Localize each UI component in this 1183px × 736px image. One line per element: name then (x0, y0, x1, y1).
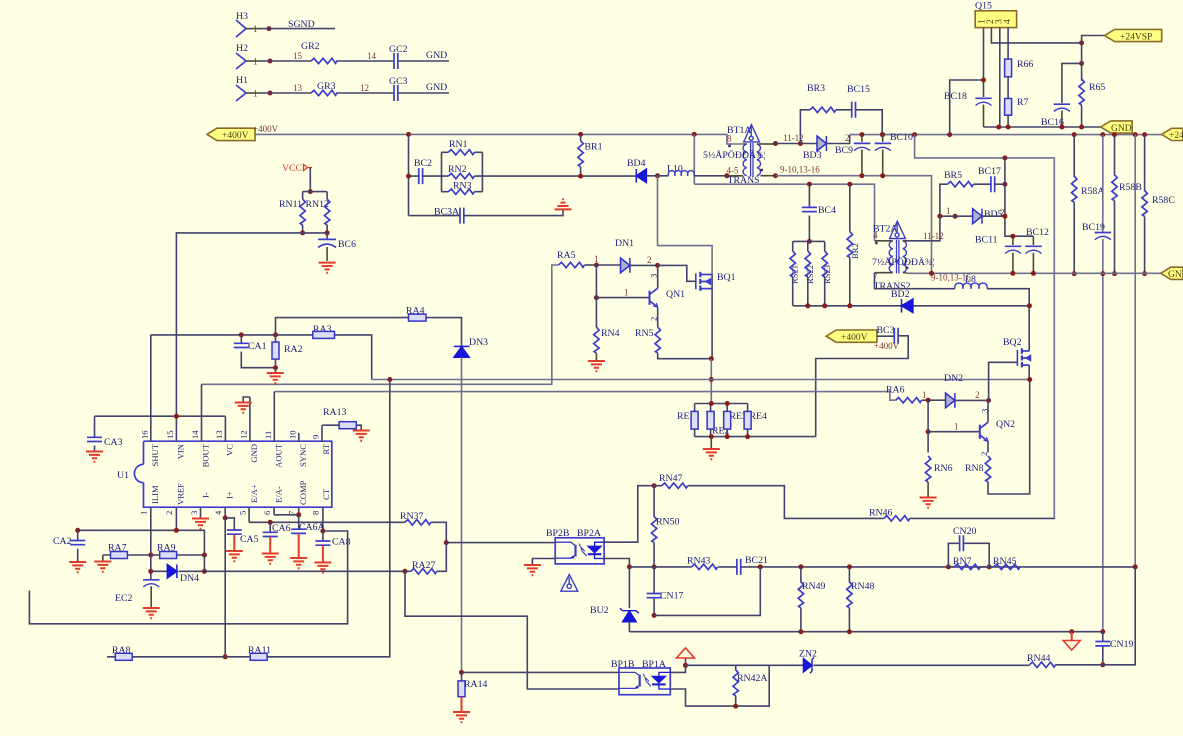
ground (143, 608, 160, 618)
node junction (1072, 271, 1077, 276)
wire (326, 192, 328, 199)
svg-text:CT: CT (321, 488, 331, 500)
svg-text:RN5: RN5 (635, 328, 654, 339)
node junction (709, 356, 714, 361)
node junction (406, 174, 411, 179)
wire E/A+ to RN37 (249, 521, 405, 523)
wire (442, 191, 483, 193)
wire (302, 192, 304, 199)
wire (1028, 306, 1030, 348)
node DN4 out (202, 569, 207, 574)
wire stub (861, 135, 863, 175)
wire (431, 522, 447, 542)
node BC19 column top (1100, 132, 1105, 137)
wire (987, 400, 989, 452)
node RN11 bottom (300, 230, 305, 235)
node junction (880, 173, 885, 178)
node junction (308, 189, 313, 194)
node BD5 line left (953, 214, 958, 219)
svg-text:12: 12 (238, 430, 248, 439)
node R58B top (1112, 132, 1117, 137)
node junction (709, 434, 714, 439)
wire CT line down to bottom (29, 531, 347, 624)
wire (322, 531, 324, 541)
power port GND flag right (1161, 267, 1183, 280)
svg-text:CN20: CN20 (953, 526, 977, 537)
svg-text:BC17: BC17 (978, 166, 1001, 177)
wire (948, 543, 989, 567)
wire BP1 top right pin to arrow port (670, 659, 685, 673)
wire (1144, 216, 1146, 273)
svg-text:2: 2 (845, 133, 850, 143)
svg-text:+400V: +400V (841, 333, 868, 343)
wire (906, 272, 931, 274)
wire (302, 225, 304, 233)
wire (423, 175, 442, 177)
wire BP2 emitter pin down (604, 559, 629, 567)
wire BQ1 source down (711, 289, 713, 359)
wire (653, 543, 655, 567)
wire (848, 608, 850, 632)
LED inside BP2A (588, 542, 604, 558)
svg-text:6: 6 (262, 510, 272, 515)
ground under RN6 (920, 498, 937, 508)
wire BP1A to ZN2 line (686, 664, 770, 666)
node junction (798, 629, 803, 634)
node junction (822, 303, 827, 308)
node junction (174, 528, 179, 533)
power port +24VSP flag (1082, 36, 1105, 43)
svg-text:VC: VC (225, 444, 235, 456)
wire (988, 380, 1030, 495)
node CT pin8 (320, 529, 325, 534)
node BQ2 source on sense rail (1027, 377, 1032, 382)
power port +400V flag (207, 128, 255, 141)
safety symbol triangle (561, 575, 578, 592)
wire E/A- to COMP jog (274, 514, 299, 516)
node junction (1100, 271, 1105, 276)
node junction (709, 401, 714, 406)
svg-text:VREF: VREF (176, 483, 186, 505)
ground at BP2 (524, 565, 541, 575)
node on bus at transformer drop (692, 132, 697, 137)
wire stub (983, 105, 985, 127)
ground at RA13 (353, 431, 370, 441)
wire (77, 530, 79, 561)
node R58A top (1072, 132, 1077, 137)
wire (940, 215, 973, 217)
wire (442, 175, 483, 177)
svg-text:DN4: DN4 (180, 573, 199, 584)
wire I+ down to RA8/RA11 (224, 518, 226, 657)
node on jog line (1002, 155, 1007, 160)
svg-text:15: 15 (293, 51, 303, 61)
wire BD5 column (1005, 158, 1034, 236)
svg-text:1: 1 (594, 254, 599, 264)
wire secondary return rail 9-10,13-16 (761, 175, 776, 177)
node RA2 bottom (273, 365, 278, 370)
svg-text:CA3: CA3 (104, 437, 123, 448)
svg-text:RN1: RN1 (449, 139, 468, 150)
wire opto drive line (446, 542, 555, 544)
wire primary return rail (694, 184, 874, 241)
node junction (847, 303, 852, 308)
node RN37/RA27 to opto (444, 540, 449, 545)
wire ILIM down (150, 555, 152, 580)
wire Q15 pin3 (999, 28, 1001, 127)
wire (94, 416, 96, 450)
ground (86, 452, 103, 462)
wire stub (326, 247, 328, 261)
wire (275, 335, 277, 368)
node junction (724, 173, 729, 178)
svg-text:BQ2: BQ2 (1003, 337, 1022, 348)
svg-text:E/A+: E/A+ (249, 484, 259, 503)
power port +24V flag (1162, 128, 1183, 141)
svg-text:DN2: DN2 (944, 373, 963, 384)
wire (653, 567, 655, 616)
wire (225, 380, 390, 657)
wire CN17 bottom to BC21 out (654, 567, 760, 616)
node junction (773, 173, 778, 178)
wire (807, 241, 809, 305)
node junction (268, 59, 273, 64)
resistor RE2 (707, 404, 729, 437)
svg-text:ILIM: ILIM (150, 485, 160, 504)
wire (442, 151, 483, 153)
polarity dot left (728, 145, 730, 147)
ground at pin 12 (243, 397, 250, 402)
svg-text:H3: H3 (236, 11, 248, 22)
ground under RA2 (275, 368, 277, 373)
ground under RN4 (588, 361, 605, 371)
node junction (1059, 125, 1064, 130)
node RN45 line to feedback column (1133, 564, 1138, 569)
node on bus at BR1 (578, 132, 583, 137)
wire (585, 264, 597, 266)
svg-text:BR1: BR1 (585, 142, 603, 153)
wire stub (727, 175, 743, 177)
svg-text:12: 12 (360, 83, 369, 93)
node junction (296, 512, 301, 517)
node RA5/DN1 (594, 263, 599, 268)
node RA9 right (202, 553, 207, 558)
wire (955, 399, 989, 401)
wire bus drop to lower rail (693, 134, 695, 184)
svg-text:SGND: SGND (288, 19, 315, 30)
svg-text:R58B: R58B (1119, 182, 1142, 193)
svg-text:CN19: CN19 (1110, 639, 1134, 650)
wire lower feedback rail (629, 631, 1102, 633)
wire bottom return line (769, 567, 1135, 665)
node DN3 column to BP1 (459, 670, 464, 675)
node junction (847, 182, 852, 187)
node junction (1031, 271, 1036, 276)
wire (877, 335, 894, 337)
ground (69, 562, 86, 572)
wire BD4 node down to BQ1 drain (658, 176, 713, 275)
node junction (1010, 271, 1015, 276)
node junction (627, 564, 632, 569)
power port GND flag (1101, 121, 1133, 134)
wire L8 to BQ2 drain (987, 289, 1029, 306)
wire BP2 anode to RN47/RN50 (604, 486, 654, 543)
svg-text:ZN2: ZN2 (799, 649, 817, 660)
svg-text:R66: R66 (1017, 59, 1033, 70)
node DN2 out (986, 398, 991, 403)
svg-text:RN44: RN44 (1027, 653, 1051, 664)
wire (628, 567, 630, 608)
wire stub (246, 60, 262, 62)
power port VCC (282, 163, 312, 174)
wire (824, 241, 826, 305)
node junction (745, 434, 750, 439)
wire (409, 215, 461, 217)
node ILIM/RA7/RA9 (148, 553, 153, 558)
svg-text:QN1: QN1 (666, 289, 685, 300)
node RA6/DN2 (926, 398, 931, 403)
node feedback column top (1133, 132, 1138, 137)
node junction (773, 141, 778, 146)
wire (910, 517, 1055, 519)
wire stub (1012, 236, 1014, 273)
wire (776, 143, 818, 145)
node junction (578, 174, 583, 179)
wire (980, 566, 994, 568)
svg-text:8: 8 (727, 134, 732, 144)
wire (922, 399, 946, 401)
wire +24V rectified rail (850, 134, 1162, 136)
wire Q15 pin1 (983, 28, 985, 97)
svg-text:GND: GND (249, 444, 259, 463)
svg-text:BC11: BC11 (975, 235, 998, 246)
node RA2 top (273, 332, 278, 337)
svg-text:GND: GND (1168, 270, 1183, 280)
wire Q15 ground rail (984, 126, 1101, 128)
node junction (268, 91, 273, 96)
wire current sense rail (SHUT net) (372, 379, 1030, 381)
U1 top pin leads (151, 335, 322, 441)
wire BD3 out jog to +24V rail (826, 135, 849, 144)
wire (710, 404, 712, 437)
wire L10 to transformer pin 4-5 (694, 175, 727, 177)
svg-text:RA6: RA6 (886, 385, 905, 396)
wire (657, 265, 659, 327)
wire (326, 233, 328, 240)
svg-text:BC19: BC19 (1082, 222, 1105, 233)
svg-text:BC21: BC21 (745, 555, 768, 566)
node junction (709, 377, 714, 382)
node junction (880, 132, 885, 137)
svg-text:2: 2 (649, 317, 659, 321)
polarity dot right (906, 267, 908, 269)
svg-text:RA14: RA14 (464, 679, 488, 690)
wire BR3 feedback branch (800, 110, 851, 144)
svg-text:BOUT: BOUT (201, 443, 211, 467)
wire secondary top pin 11-12 (761, 143, 776, 145)
svg-text:BC15: BC15 (847, 84, 870, 95)
wire snubber bottom rail (793, 305, 1030, 307)
svg-text:1: 1 (954, 422, 959, 432)
wire (107, 656, 225, 658)
svg-text:BU2: BU2 (590, 605, 609, 616)
wire (948, 566, 954, 568)
wire (646, 175, 668, 177)
wire stub (246, 92, 262, 94)
svg-text:I-: I- (201, 492, 211, 498)
wire AOUT line (274, 392, 895, 401)
node junction (929, 271, 934, 276)
wire (241, 335, 275, 368)
svg-text:4-5: 4-5 (727, 166, 739, 176)
wire top rail of RN11/RN12 (303, 191, 328, 193)
svg-text:QN2: QN2 (996, 419, 1015, 430)
node junction (807, 239, 812, 244)
svg-text:GR2: GR2 (301, 41, 320, 52)
svg-text:5: 5 (237, 511, 247, 515)
svg-text:13: 13 (293, 83, 303, 93)
wire (298, 515, 300, 529)
wire secondary bottom rail of TRANS2 (903, 272, 907, 274)
wire Q15 pin2 to +24VSP (991, 28, 1081, 43)
svg-text:1: 1 (253, 24, 258, 34)
wire (848, 567, 850, 583)
svg-text:3: 3 (189, 511, 199, 515)
wire (326, 225, 328, 233)
wire (262, 92, 394, 94)
wire (1114, 201, 1116, 274)
connector H3 (236, 11, 262, 37)
node CN20 right (987, 564, 992, 569)
svg-text:15: 15 (165, 430, 175, 439)
wire to BQ1 gate (658, 265, 696, 281)
diode DN2 (946, 393, 955, 408)
svg-text:RN47: RN47 (659, 473, 683, 484)
svg-text:1: 1 (624, 288, 629, 298)
wire BC18 riser (950, 80, 984, 135)
node junction (75, 528, 80, 533)
wire (711, 275, 713, 289)
node junction (387, 377, 392, 382)
wire RS top rail (793, 240, 825, 242)
node VIN junction (174, 414, 179, 419)
node I+ pin4 (223, 515, 228, 520)
svg-text:CA5: CA5 (240, 534, 259, 545)
wire stub (875, 240, 907, 242)
node junction (1002, 214, 1007, 219)
svg-text:1: 1 (922, 390, 927, 400)
svg-text:BR5: BR5 (944, 170, 962, 181)
node RN12 bottom (325, 230, 330, 235)
svg-text:BD3: BD3 (803, 150, 822, 161)
svg-text:H2: H2 (236, 43, 248, 54)
wire (735, 696, 737, 706)
svg-text:11: 11 (263, 431, 273, 439)
wire (653, 486, 655, 518)
resistor RE1 (677, 404, 698, 437)
svg-text:13: 13 (214, 430, 224, 439)
wire VREF rail (78, 530, 205, 555)
svg-text:10: 10 (287, 430, 297, 439)
wire DN3 down feedback column (461, 357, 463, 672)
svg-text:1: 1 (946, 206, 951, 216)
wire (808, 184, 810, 241)
wire to BQ2 gate (989, 362, 1018, 400)
node CN19 top (1100, 629, 1105, 634)
wire RA27 node down to BP1 path (405, 571, 619, 689)
wire (262, 28, 335, 30)
wire stub (875, 272, 893, 274)
svg-text:CN17: CN17 (660, 591, 684, 602)
wire (628, 622, 630, 632)
node junction (733, 704, 738, 709)
svg-text:BC9: BC9 (835, 145, 853, 156)
svg-text:2: 2 (647, 255, 652, 265)
wire VIN net to U1 (176, 233, 327, 416)
polarity dot left (875, 242, 877, 244)
node junction (996, 125, 1001, 130)
wire VCC to RN11/RN12 (309, 168, 311, 192)
node RA8/RA11/I+ (223, 654, 228, 659)
svg-text:2: 2 (164, 511, 174, 515)
node +24VSP junction (1079, 40, 1084, 45)
svg-text:2: 2 (975, 390, 980, 400)
wire stub (102, 555, 104, 561)
ground above BC3A wire (555, 199, 572, 209)
wire (322, 425, 361, 429)
svg-text:RN43: RN43 (687, 556, 711, 567)
node junction (1112, 271, 1117, 276)
node CA6 top (268, 520, 273, 525)
node CN19 bottom (1100, 662, 1105, 667)
wire DN3 column to BP1 anode-side pin (462, 671, 620, 673)
svg-text:E/A-: E/A- (274, 486, 284, 503)
node junction (1006, 125, 1011, 130)
node junction (807, 182, 812, 187)
node junction (981, 78, 986, 83)
wire (461, 672, 463, 681)
wire (225, 518, 234, 530)
wire (1081, 105, 1083, 127)
node CN17 bottom (652, 613, 657, 618)
svg-text:Q15: Q15 (975, 1, 992, 12)
polarity dot right (761, 169, 763, 171)
wire RN47 to RN46 (688, 486, 884, 519)
svg-text:RN42A: RN42A (737, 673, 767, 684)
svg-text:+24V: +24V (1169, 131, 1183, 141)
wire BOUT line to RA5 (202, 265, 559, 384)
svg-text:R65: R65 (1089, 82, 1105, 93)
LED inside BP1A (652, 672, 670, 689)
svg-text:BR3: BR3 (807, 83, 825, 94)
wire BC3 to RE rail (816, 336, 909, 437)
node junction (148, 569, 153, 574)
wire (203, 555, 205, 571)
resistor network box right rail (481, 152, 483, 191)
node BC10 (880, 132, 885, 137)
svg-text:RA13: RA13 (323, 407, 347, 418)
connector H2 (236, 43, 262, 69)
svg-text:VCC: VCC (282, 163, 302, 174)
power port +400V flag at BC3 (826, 330, 877, 343)
svg-text:8: 8 (311, 511, 321, 515)
wire (595, 265, 597, 327)
svg-text:BC6: BC6 (338, 239, 356, 250)
wire (726, 404, 728, 437)
wire (800, 608, 802, 632)
wire BP1 bottom right pin (670, 665, 769, 706)
node BC9 (859, 132, 864, 137)
